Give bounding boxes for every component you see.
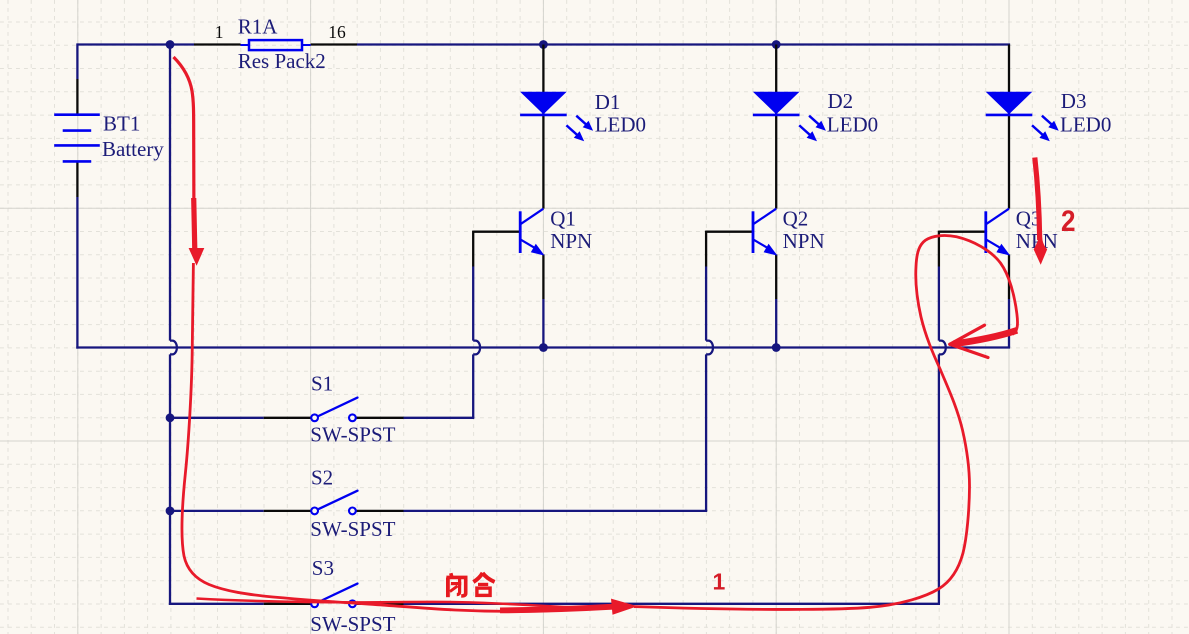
- annotation red thick arrow along bottom wire: [500, 607, 613, 611]
- svg-text:D2: D2: [828, 89, 854, 113]
- wire crossover hop at junction column: [170, 341, 177, 355]
- switch S3 (SW-SPST): [264, 584, 404, 608]
- svg-text:2: 2: [1061, 205, 1076, 238]
- switch S1 (SW-SPST): [264, 398, 404, 422]
- wire top horizontal bus: [77, 43, 194, 45]
- wire S2 row horizontal: [170, 510, 264, 512]
- svg-text:SW-SPST: SW-SPST: [310, 422, 395, 446]
- wire crossover hop at Q1 base column: [473, 341, 480, 355]
- svg-text:R1A: R1A: [238, 15, 279, 39]
- resistor R1A (Res Pack2): [194, 40, 357, 50]
- wire Q2 base column vertical: [705, 354, 707, 511]
- wire crossover hop at Q3 base column: [939, 341, 946, 355]
- svg-text:LED0: LED0: [595, 113, 646, 137]
- transistor Q1 (NPN): [473, 209, 544, 299]
- battery BT1: [54, 79, 100, 197]
- node D1 top junction: [539, 40, 548, 49]
- node S2 tap junction: [166, 507, 175, 516]
- wire Q3 base column vertical: [938, 354, 940, 603]
- node battery/bus junction: [166, 40, 175, 49]
- wire junction column vertical: [169, 45, 171, 341]
- LED D2 (LED0): [753, 45, 826, 209]
- wire Q1 emitter drop to middle bus: [542, 299, 544, 348]
- node Q1 emitter junction: [539, 343, 548, 352]
- annotation red arrow 2 (from D3 down to Q3): [1035, 158, 1040, 241]
- svg-text:NPN: NPN: [783, 229, 825, 253]
- LED D1 (LED0): [520, 45, 593, 209]
- svg-text:D1: D1: [595, 90, 621, 114]
- svg-text:16: 16: [328, 22, 346, 42]
- wire Q3 emitter drop to middle bus: [1008, 299, 1010, 348]
- annotation red secondary bottom stroke: [197, 599, 602, 608]
- annotation red path to the right and up into loop around Q3: [634, 236, 1018, 610]
- svg-text:D3: D3: [1061, 89, 1087, 113]
- svg-text:NPN: NPN: [550, 229, 592, 253]
- node D2 top junction: [772, 40, 781, 49]
- svg-text:LED0: LED0: [827, 113, 878, 137]
- annotation red thick arrow pointing left into middle-bus node: [954, 330, 1018, 344]
- wire Q1 base column vertical: [472, 354, 474, 417]
- svg-text:Q1: Q1: [550, 206, 576, 230]
- svg-text:Res Pack2: Res Pack2: [238, 49, 326, 73]
- svg-text:SW-SPST: SW-SPST: [310, 517, 395, 541]
- transistor Q3 (NPN): [939, 209, 1010, 299]
- svg-text:S2: S2: [311, 466, 333, 490]
- wire battery left vertical: [76, 43, 78, 79]
- annotation red label closed (Chinese bi-he): [446, 573, 494, 597]
- svg-text:1: 1: [713, 569, 726, 595]
- annotation red freehand path down-left and along bottom: [182, 263, 614, 611]
- svg-text:S1: S1: [311, 371, 333, 395]
- svg-text:Battery: Battery: [102, 137, 164, 161]
- LED D3 (LED0): [986, 45, 1059, 209]
- node S1 tap junction: [166, 413, 175, 422]
- svg-text:Q2: Q2: [783, 206, 809, 230]
- svg-text:LED0: LED0: [1060, 113, 1111, 137]
- wire Q2 emitter drop to middle bus: [775, 299, 777, 348]
- wire middle horizontal bus: [76, 346, 1010, 348]
- svg-text:SW-SPST: SW-SPST: [310, 612, 395, 634]
- switch S2 (SW-SPST): [264, 491, 404, 515]
- transistor Q2 (NPN): [706, 209, 777, 299]
- node Q2 emitter junction: [772, 343, 781, 352]
- svg-text:BT1: BT1: [103, 112, 140, 136]
- wire S1 row horizontal: [170, 417, 264, 419]
- svg-text:S3: S3: [312, 556, 334, 580]
- wire crossover hop at Q2 base column: [706, 341, 713, 355]
- svg-text:1: 1: [215, 22, 224, 42]
- wire bottom horizontal (S3 row): [169, 603, 264, 605]
- annotation red arrow (current path from battery, left): [174, 57, 195, 249]
